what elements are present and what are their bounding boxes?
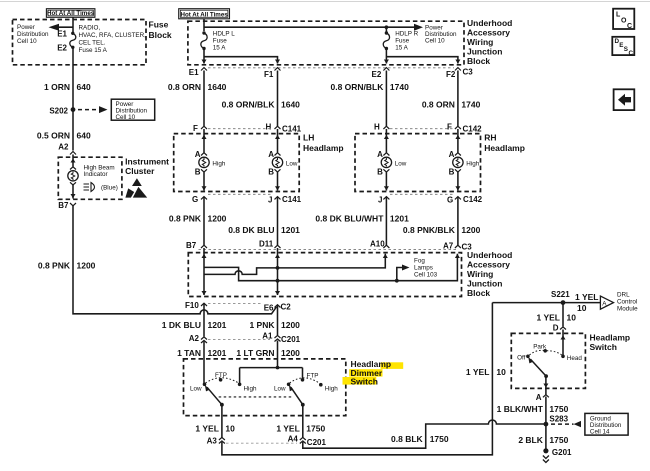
wire left lever out of box: [221, 405, 223, 438]
dashed arrow S202 to power distribution box: [78, 109, 99, 111]
svg-text:1640: 1640: [208, 82, 227, 92]
pin E6 chevron: [275, 305, 281, 308]
RH low bulb feed wire with up arrow: [385, 129, 387, 153]
svg-text:1 TAN: 1 TAN: [177, 348, 201, 358]
wire B7 down and right to E6 (hops over F10 wire): [73, 206, 277, 314]
svg-text:Off: Off: [517, 355, 526, 362]
svg-text:Instrument: Instrument: [125, 157, 169, 167]
right switch contacts: [287, 383, 291, 387]
svg-text:FTP: FTP: [307, 373, 319, 380]
svg-text:0.8 DK BLU: 0.8 DK BLU: [228, 225, 274, 235]
wire E6 down to A1: [277, 305, 279, 335]
RH high bulb ground wire with down arrow: [457, 172, 459, 190]
svg-text:1750: 1750: [549, 404, 568, 414]
pin chevron above bulb: [70, 167, 76, 170]
svg-text:1 ORN: 1 ORN: [44, 82, 70, 92]
svg-text:J: J: [378, 195, 382, 204]
svg-text:Fuse: Fuse: [395, 38, 409, 45]
wire into cluster with up arrow: [72, 155, 74, 167]
svg-text:HVAC, RFA, CLUSTER,: HVAC, RFA, CLUSTER,: [79, 32, 147, 39]
interior branch 1 (to lower rail): [204, 254, 457, 281]
svg-text:1200: 1200: [281, 320, 300, 330]
svg-text:(Blue): (Blue): [101, 185, 118, 192]
wire E1 to F (LH high feed): [203, 71, 205, 127]
underhood junction block 1 dashed box: [188, 21, 464, 65]
DESC button: [612, 37, 634, 55]
interior stub D11-E6: [277, 248, 279, 295]
hot-at-all-times label box 2: [179, 9, 230, 19]
svg-text:10: 10: [225, 424, 235, 434]
svg-text:1 YEL: 1 YEL: [537, 313, 560, 323]
svg-text:S283: S283: [549, 415, 568, 424]
svg-text:1 YEL: 1 YEL: [195, 424, 218, 434]
interior stub B7-F10 with arrows: [203, 248, 205, 295]
svg-text:Fuse 15 A: Fuse 15 A: [79, 47, 108, 54]
svg-text:HDLP L: HDLP L: [213, 31, 235, 38]
svg-text:Headlamp: Headlamp: [484, 143, 525, 153]
RH high bulb feed wire with up arrow: [457, 129, 459, 153]
connector C141 dashed line (bottom): [208, 193, 273, 195]
svg-text:C2: C2: [281, 303, 292, 312]
svg-text:Block: Block: [467, 56, 490, 66]
svg-text:Cell 10: Cell 10: [425, 38, 445, 45]
svg-text:S: S: [624, 46, 628, 53]
LH low bulb ground wire with down arrow: [277, 172, 279, 190]
junction dot lower rail / D11: [276, 279, 280, 283]
svg-text:F10: F10: [185, 301, 199, 310]
switch lever with arrow: [530, 359, 546, 376]
svg-text:DRL: DRL: [617, 292, 630, 299]
svg-text:Underhood: Underhood: [467, 18, 512, 28]
svg-text:RADIO,: RADIO,: [79, 25, 101, 32]
svg-text:S202: S202: [49, 107, 68, 116]
pin A2 chevron: [70, 152, 76, 155]
svg-text:Park: Park: [533, 344, 547, 351]
wire LT GRN into switch feed tee: [277, 359, 279, 368]
svg-text:A: A: [268, 150, 274, 159]
svg-text:B: B: [377, 168, 383, 177]
svg-text:Hot At All Times: Hot At All Times: [47, 10, 95, 17]
svg-text:Accessory: Accessory: [467, 259, 510, 269]
wire J to A10: [385, 197, 387, 245]
headlamp dimmer switch dashed box: [184, 359, 346, 416]
svg-text:1750: 1750: [306, 424, 325, 434]
svg-text:D11: D11: [259, 240, 274, 249]
svg-text:Switch: Switch: [590, 342, 617, 352]
svg-text:C: C: [627, 23, 632, 30]
svg-text:Cell 10: Cell 10: [116, 114, 136, 121]
svg-text:E2: E2: [372, 70, 382, 79]
LH high bulb ground wire with down arrow: [203, 172, 205, 190]
svg-text:C3: C3: [463, 68, 474, 77]
wire D into head contact with up arrow: [562, 330, 564, 357]
connector C3 dashed line: [199, 249, 457, 251]
connector C141 dashed line (top): [208, 128, 273, 130]
svg-text:G: G: [192, 195, 198, 204]
wire from hot box 2: [203, 19, 205, 31]
svg-text:0.5 ORN: 0.5 ORN: [37, 131, 70, 141]
LH low beam bulb: [272, 157, 282, 167]
switch dotted arc: [529, 350, 561, 355]
fuse HDLP L 15A: [202, 31, 205, 34]
SECTION_E: [492, 290, 638, 463]
power distribution cell 10 box (solid): [111, 99, 154, 120]
svg-text:Fog: Fog: [414, 258, 425, 265]
svg-text:H: H: [266, 123, 272, 132]
mechanical link dashed line: [219, 396, 292, 398]
svg-text:High: High: [325, 386, 338, 393]
svg-text:A2: A2: [58, 143, 69, 152]
svg-text:C141: C141: [282, 125, 302, 134]
svg-text:E1: E1: [57, 30, 67, 39]
svg-text:Low: Low: [190, 386, 202, 393]
svg-text:A4: A4: [288, 435, 299, 444]
svg-text:Cell 14: Cell 14: [590, 429, 610, 436]
svg-text:A: A: [449, 150, 455, 159]
branch HDLP R to F2 exit: [386, 57, 458, 64]
wire out of cluster with down arrow: [72, 185, 74, 199]
left switch contacts: [203, 383, 207, 387]
fuse block 1 dashed box: [13, 20, 147, 65]
svg-text:C141: C141: [282, 195, 302, 204]
svg-text:G: G: [447, 195, 453, 204]
bulb lower chevron: [70, 182, 76, 185]
svg-text:1750: 1750: [430, 434, 449, 444]
wire right lever out of box: [302, 405, 304, 438]
wire A2 to dimmer box: [203, 342, 205, 360]
SECTION_A: [168, 9, 512, 126]
right switch dotted arc: [290, 378, 320, 384]
DRL module triangle with A: [600, 296, 613, 309]
pin F10 chevron: [201, 303, 207, 306]
svg-text:CEL TEL.: CEL TEL.: [79, 40, 106, 47]
svg-text:Low: Low: [274, 386, 286, 393]
left switch dotted arc: [206, 378, 239, 383]
LOC button: [613, 9, 634, 29]
svg-text:0.8 BLK: 0.8 BLK: [391, 434, 424, 444]
svg-text:B: B: [268, 168, 274, 177]
svg-text:1750: 1750: [549, 435, 568, 445]
RH low bulb ground wire with down arrow: [385, 172, 387, 190]
junction dot upper rail / D11: [276, 266, 280, 270]
svg-text:0.8 DK BLU/WHT: 0.8 DK BLU/WHT: [315, 214, 384, 224]
svg-text:10: 10: [577, 303, 587, 313]
svg-text:F: F: [447, 123, 452, 132]
wire S202 to A2: [72, 110, 74, 151]
yellow highlight bars: [381, 362, 404, 369]
svg-text:Headlamp: Headlamp: [590, 333, 631, 343]
connector C201 dashed line (bottom): [226, 442, 297, 444]
svg-text:LH: LH: [303, 132, 314, 142]
svg-text:C142: C142: [463, 125, 483, 134]
svg-text:High: High: [244, 386, 257, 393]
svg-text:J: J: [268, 195, 272, 204]
svg-text:S221: S221: [551, 290, 570, 299]
arrow to power distribution (left): [52, 26, 73, 28]
svg-text:High: High: [212, 161, 225, 168]
svg-text:640: 640: [77, 82, 91, 92]
svg-text:1 BLK/WHT: 1 BLK/WHT: [497, 404, 544, 414]
svg-text:A3: A3: [207, 437, 218, 446]
scan edge artifact left: [0, 1, 650, 3]
svg-text:640: 640: [77, 131, 91, 141]
svg-text:C: C: [629, 50, 634, 57]
svg-text:FTP: FTP: [215, 372, 227, 379]
svg-text:0.8 PNK/BLK: 0.8 PNK/BLK: [403, 225, 456, 235]
svg-text:B7: B7: [186, 241, 197, 250]
pin B7 chevron: [70, 203, 76, 206]
svg-text:HDLP R: HDLP R: [395, 31, 418, 38]
svg-text:High: High: [466, 161, 479, 168]
svg-text:Underhood: Underhood: [467, 250, 512, 260]
RH low beam bulb: [381, 157, 391, 167]
interior branch 2 with hop (to upper rail): [204, 254, 385, 275]
svg-text:B7: B7: [58, 201, 69, 210]
svg-text:F1: F1: [264, 70, 274, 79]
svg-text:Module: Module: [617, 306, 638, 313]
ground G201 symbol: [543, 448, 548, 453]
left drop to high contact: [239, 368, 241, 384]
wire from hot box 1 down: [72, 17, 74, 33]
svg-text:Fuse: Fuse: [213, 38, 227, 45]
right drop to FTP contact: [302, 368, 304, 380]
svg-text:0.8 ORN/BLK: 0.8 ORN/BLK: [222, 100, 276, 110]
svg-text:Lamps: Lamps: [414, 265, 433, 272]
wire S221 down to D: [562, 303, 564, 327]
svg-text:Head: Head: [567, 355, 583, 362]
svg-text:Control: Control: [617, 299, 637, 306]
wire E2 to H (RH low feed): [385, 71, 387, 127]
wire TAN into left switch low contact: [203, 359, 205, 384]
svg-text:E6: E6: [264, 304, 274, 313]
SECTION_C: [162, 240, 513, 360]
wire HDLP R to E2 exit (down arrow): [385, 49, 387, 64]
svg-text:A10: A10: [370, 240, 385, 249]
svg-text:Cluster: Cluster: [125, 166, 155, 176]
svg-text:1 DK BLU: 1 DK BLU: [162, 320, 201, 330]
LH high beam bulb: [199, 157, 209, 167]
wire J to D11: [277, 197, 279, 245]
LH headlamp dashed box: [174, 134, 300, 192]
ESD triangle symbol: [132, 178, 142, 186]
connector C201 dashed line (top): [208, 339, 270, 341]
junction dot at HDLP R tap: [385, 25, 389, 29]
svg-text:1740: 1740: [461, 100, 480, 110]
svg-text:B: B: [449, 168, 455, 177]
svg-text:Indicator: Indicator: [84, 171, 108, 178]
svg-text:1 PNK: 1 PNK: [249, 320, 275, 330]
svg-text:Fuse: Fuse: [149, 20, 169, 30]
svg-text:Distribution: Distribution: [17, 31, 49, 38]
svg-text:A: A: [195, 150, 201, 159]
wire A to S283: [545, 397, 547, 449]
svg-text:Block: Block: [467, 288, 490, 298]
feed tee rail: [240, 367, 303, 369]
ground distribution cell 14 box: [585, 413, 628, 435]
left switch lever with arrow: [207, 387, 222, 405]
svg-text:A: A: [377, 150, 383, 159]
svg-text:H: H: [374, 123, 380, 132]
svg-text:E1: E1: [189, 68, 199, 77]
svg-text:C201: C201: [307, 438, 327, 447]
svg-text:C142: C142: [463, 195, 483, 204]
svg-text:2 BLK: 2 BLK: [518, 435, 543, 445]
SECTION_F: [612, 9, 634, 110]
wire lever down with arrow out of box: [545, 376, 547, 394]
svg-text:G201: G201: [552, 448, 572, 457]
splice S283 node: [544, 422, 549, 427]
high beam indicator bulb: [68, 171, 78, 181]
svg-text:RH: RH: [484, 132, 496, 142]
branch HDLP L to F1 exit: [204, 57, 278, 64]
svg-text:Low: Low: [286, 161, 298, 168]
LH low bulb feed wire with up arrow: [277, 129, 279, 153]
svg-text:Block: Block: [149, 30, 172, 40]
splice S221 node: [561, 300, 566, 305]
wire F1 to H (LH low feed): [277, 71, 279, 127]
svg-text:0.8 PNK: 0.8 PNK: [169, 214, 202, 224]
connector C142 dashed line (bottom): [390, 193, 453, 195]
blue lamp icon: [84, 183, 90, 185]
svg-text:B: B: [195, 168, 201, 177]
svg-text:1740: 1740: [390, 82, 409, 92]
svg-text:Junction: Junction: [467, 278, 502, 288]
wire HDLP L to E1 exit (down arrow): [203, 49, 205, 64]
svg-text:E: E: [619, 42, 623, 49]
svg-text:Cell 103: Cell 103: [414, 272, 438, 279]
wire G to A7: [457, 197, 459, 245]
svg-text:1201: 1201: [208, 348, 227, 358]
dashed arrow S283 to ground distribution: [551, 423, 574, 425]
wire A4 down right to S283 with step and hop: [303, 420, 544, 448]
RH high beam bulb: [453, 157, 463, 167]
underhood junction block 2 dashed box: [188, 253, 461, 297]
svg-text:1200: 1200: [281, 348, 300, 358]
bus wire with arrow to power distribution: [204, 26, 416, 28]
svg-text:Cell 10: Cell 10: [17, 38, 37, 45]
wire G to B7: [203, 197, 205, 245]
instrument cluster dashed box: [58, 157, 122, 199]
svg-text:E2: E2: [57, 43, 67, 52]
svg-text:15 A: 15 A: [213, 45, 226, 52]
svg-text:1 YEL: 1 YEL: [575, 292, 598, 302]
svg-text:1200: 1200: [461, 225, 480, 235]
svg-text:10: 10: [496, 367, 506, 377]
svg-text:A7: A7: [443, 242, 454, 251]
svg-text:1640: 1640: [281, 100, 300, 110]
fog lamps branch: [395, 279, 399, 283]
svg-text:1200: 1200: [77, 261, 96, 271]
svg-text:Power: Power: [17, 24, 35, 31]
SECTION_B: [169, 123, 525, 246]
svg-text:0.8 ORN/BLK: 0.8 ORN/BLK: [330, 82, 384, 92]
svg-text:0.8 ORN: 0.8 ORN: [422, 100, 455, 110]
right switch lever with arrow: [291, 387, 303, 405]
fuse F1 radio 15A (symbol): [71, 32, 74, 35]
RH headlamp dashed box: [355, 134, 481, 192]
svg-text:Headlamp: Headlamp: [303, 143, 344, 153]
svg-text:F: F: [193, 124, 198, 133]
svg-text:Hot At All Times: Hot At All Times: [180, 11, 228, 18]
svg-text:D: D: [553, 324, 559, 333]
svg-text:0.8 PNK: 0.8 PNK: [38, 261, 71, 271]
LH high bulb feed wire with up arrow: [203, 129, 205, 153]
svg-text:1 YEL: 1 YEL: [276, 424, 299, 434]
headlamp switch dashed box: [511, 333, 585, 388]
svg-text:Switch: Switch: [351, 376, 378, 386]
wire A1 to dimmer box: [277, 341, 279, 360]
connector C3 dashed line under junction block 1: [208, 67, 454, 69]
svg-text:1201: 1201: [390, 214, 409, 224]
fuse HDLP R 15A: [385, 27, 387, 33]
svg-text:A2: A2: [189, 334, 200, 343]
wire S221 rail to DRL module: [492, 302, 600, 304]
connector C2 dashed line: [208, 303, 262, 305]
svg-text:0.8 ORN: 0.8 ORN: [168, 82, 201, 92]
wire F2 to F (RH high feed): [457, 71, 459, 127]
SECTION_D: [184, 303, 544, 455]
hot-at-all-times label box 1: [46, 9, 95, 18]
svg-text:Accessory: Accessory: [467, 27, 510, 37]
svg-text:15 A: 15 A: [395, 45, 408, 52]
svg-text:1 YEL: 1 YEL: [466, 367, 489, 377]
headlamp switch contacts off park head: [526, 355, 530, 359]
svg-text:10: 10: [567, 313, 577, 323]
svg-text:1201: 1201: [208, 320, 227, 330]
svg-text:Wiring: Wiring: [467, 269, 493, 279]
wire fuse to S202: [72, 47, 74, 109]
svg-text:F2: F2: [446, 70, 456, 79]
wire A3 down right to S221 riser: [222, 303, 493, 455]
back arrow button: [614, 89, 635, 110]
svg-text:1201: 1201: [281, 225, 300, 235]
splice S202 node: [71, 107, 76, 112]
svg-text:A: A: [536, 393, 542, 402]
svg-text:1200: 1200: [208, 214, 227, 224]
connector C142 dashed line (top): [390, 128, 453, 130]
svg-text:Junction: Junction: [467, 46, 502, 56]
svg-text:Wiring: Wiring: [467, 37, 493, 47]
wire F10 down to A2: [203, 303, 205, 336]
svg-text:C201: C201: [281, 335, 301, 344]
svg-text:Low: Low: [395, 161, 407, 168]
svg-text:1 LT GRN: 1 LT GRN: [236, 348, 274, 358]
